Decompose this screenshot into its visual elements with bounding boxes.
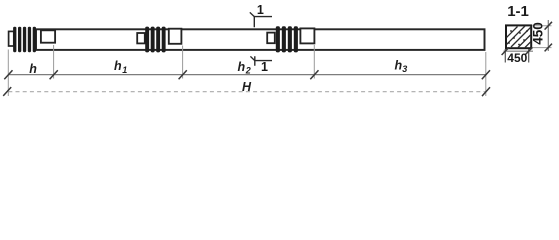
section mark 1 bottom (250, 56, 272, 74)
section vertical dim extension lines (533, 26, 552, 48)
svg-text:1: 1 (257, 3, 264, 17)
svg-text:2: 2 (245, 66, 251, 76)
dimension line H (dashed) (8, 91, 486, 93)
tick at left end (4, 70, 12, 79)
tick 450 bottom (545, 44, 552, 52)
joint A left box (137, 33, 145, 43)
section title 1-1 (507, 3, 529, 20)
left end socket box (41, 30, 55, 42)
left end stub (9, 31, 14, 46)
tick right end (482, 70, 490, 79)
label h3 (395, 58, 408, 74)
svg-text:h: h (29, 62, 37, 76)
extension line right end (485, 52, 487, 96)
extension line h2 boundary (313, 45, 315, 79)
extension line left end (7, 50, 9, 97)
svg-text:450: 450 (507, 51, 527, 65)
svg-text:H: H (242, 80, 252, 94)
extension line h1 boundary (182, 46, 184, 79)
label h (29, 62, 37, 76)
joint B right box (300, 28, 314, 43)
label 450 vertical (531, 22, 546, 45)
svg-text:h: h (238, 60, 246, 74)
dimension line h..h3 (8, 74, 486, 76)
pile body (beam outline) (36, 29, 485, 50)
tick h2/h3 (310, 70, 318, 79)
label 450 horizontal (507, 51, 527, 65)
tick h/h1 (50, 70, 58, 79)
extension line h boundary (53, 45, 55, 79)
svg-text:450: 450 (531, 22, 546, 45)
section square (concrete hatch) (506, 25, 531, 48)
svg-text:1: 1 (122, 65, 127, 75)
svg-text:h: h (114, 59, 122, 73)
joint A right box (169, 29, 182, 44)
svg-text:3: 3 (402, 64, 407, 74)
left end ribbed coupling (5 ribs) (13, 27, 36, 52)
svg-text:1-1: 1-1 (507, 3, 529, 20)
tick H left (3, 87, 11, 96)
tick 450h right (525, 47, 532, 55)
section horizontal dim line (504, 50, 534, 52)
tick 450h left (502, 47, 509, 55)
svg-text:1: 1 (261, 60, 268, 74)
section mark 1 top (250, 3, 272, 27)
section vertical dim line (547, 20, 549, 51)
label h1 (114, 59, 127, 75)
label H (242, 80, 252, 94)
tick 450 top (545, 22, 552, 30)
joint B ribbed coupling (4 ribs) (276, 26, 298, 52)
section horizontal dim extension lines (505, 49, 528, 63)
tick H right (482, 87, 490, 96)
joint A ribbed coupling (4 ribs) (145, 27, 165, 53)
label h2 (238, 60, 251, 76)
tick h1/h2 (179, 70, 187, 79)
svg-text:h: h (395, 58, 403, 72)
joint B left box (267, 33, 275, 44)
